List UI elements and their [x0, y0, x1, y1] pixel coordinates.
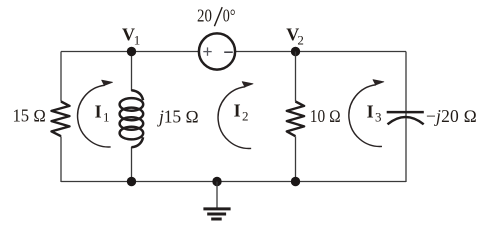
mesh arrow I1 [78, 80, 113, 147]
voltage source 20/0 [199, 33, 235, 69]
svg-text:I: I [234, 100, 241, 120]
label 10 ohm [310, 106, 341, 126]
svg-text:I: I [367, 101, 374, 121]
label j15 ohm [157, 106, 199, 126]
wire top rail [61, 51, 406, 53]
resistor 15 ohm [52, 102, 70, 137]
label 20/0deg [197, 6, 236, 27]
wire 10 ohm branch [295, 52, 297, 183]
label 15 ohm [13, 105, 47, 125]
svg-text:1: 1 [103, 109, 110, 124]
label I1 [95, 101, 110, 124]
inductor j15 ohm [120, 90, 144, 147]
svg-text:I: I [95, 101, 102, 121]
wire bottom rail [61, 181, 406, 183]
label V1 [122, 25, 140, 48]
junction dot ground [212, 177, 221, 186]
svg-text:j15 Ω: j15 Ω [157, 106, 199, 126]
label V2 [286, 25, 304, 48]
label -j20 ohm [426, 106, 477, 126]
svg-text:1: 1 [134, 32, 141, 47]
svg-text:15 Ω: 15 Ω [13, 105, 47, 125]
svg-text:2: 2 [297, 32, 304, 47]
mesh arrow I3 [349, 80, 384, 147]
label I3 [367, 101, 382, 124]
svg-text:2: 2 [242, 108, 249, 123]
node V1 dot [127, 47, 136, 56]
svg-text:−j20 Ω: −j20 Ω [426, 106, 477, 126]
wire right branch [405, 52, 407, 183]
mesh arrow I2 [218, 82, 253, 149]
node V2 dot [291, 47, 300, 56]
wire left branch [60, 52, 62, 183]
svg-text:10 Ω: 10 Ω [310, 106, 341, 126]
ground [203, 182, 230, 220]
svg-text:20: 20 [197, 6, 212, 26]
junction dot 10ohm bottom [291, 177, 300, 186]
wire inductor branch [131, 52, 133, 183]
capacitor -j20 ohm [387, 112, 424, 124]
svg-text:0°: 0° [223, 6, 236, 26]
junction dot inductor bottom [127, 177, 136, 186]
label I2 [234, 100, 249, 123]
resistor 10 ohm [287, 102, 304, 137]
svg-text:3: 3 [375, 109, 382, 124]
